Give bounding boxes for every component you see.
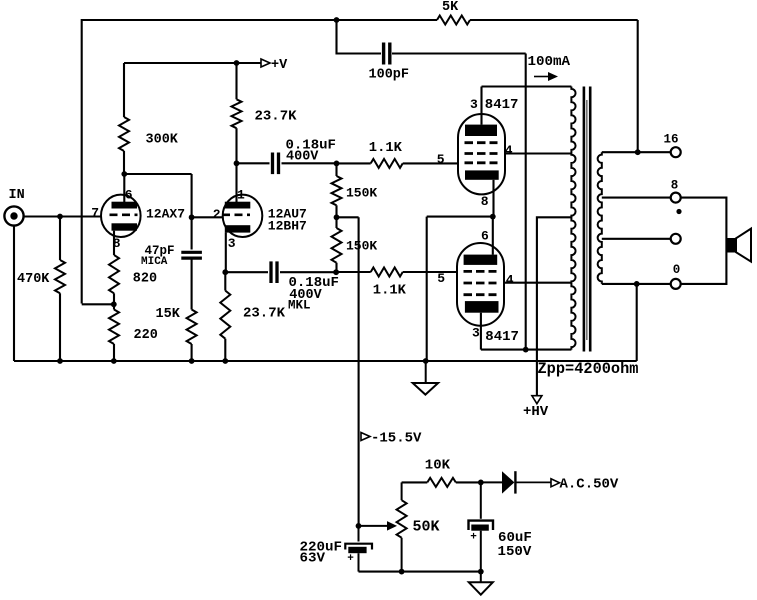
wire: V2 cathode lead (225, 233, 227, 273)
svg-text:+V: +V (271, 58, 288, 73)
svg-text:8417: 8417 (485, 329, 519, 345)
label 60uF (498, 530, 532, 546)
tube V2 grid dashes (222, 214, 250, 217)
node: feedback takeoff at 16 tap (635, 149, 641, 155)
node: 50K on bottom rail (399, 569, 405, 575)
label 220uF (300, 540, 343, 556)
svg-text:6: 6 (481, 228, 489, 243)
tube V1 grid dashes (110, 214, 138, 217)
label 100pF (369, 68, 410, 83)
label Zpp=4200ohm (538, 360, 639, 378)
label 300K (146, 133, 179, 148)
svg-text:A.C.50V: A.C.50V (560, 477, 619, 493)
wire: 16 ohm tap (602, 151, 671, 153)
svg-text:400V: 400V (286, 149, 319, 164)
pin label 4 (V4 screen) (506, 272, 514, 287)
svg-text:16: 16 (664, 132, 679, 146)
terminal 8 ohm (671, 193, 681, 203)
svg-text:15K: 15K (156, 307, 181, 322)
label 4 (dot) (676, 209, 681, 214)
label 8417 bottom (485, 329, 519, 345)
transformer T1 primary winding (571, 87, 575, 350)
svg-text:100mA: 100mA (528, 54, 571, 70)
tube V2 cathode bar (225, 225, 251, 232)
label 23.7K bottom (243, 306, 286, 322)
svg-text:2: 2 (213, 207, 221, 222)
wire: 100pF branch (337, 20, 526, 350)
wire: V4 cathode lead (492, 217, 494, 255)
resistor 150K upper with leads (332, 163, 342, 217)
svg-text:MICA: MICA (141, 256, 168, 268)
label 150V (498, 544, 532, 560)
svg-text:5K: 5K (442, 0, 459, 15)
node A junction on top wire (334, 17, 340, 23)
tube V3 g1 dashes (465, 161, 498, 164)
wire: top coupling line (237, 162, 337, 164)
label 0.18uF bottom (289, 275, 339, 291)
wire: top feedback bus y=20 (82, 20, 638, 304)
wire: ground bus (14, 360, 637, 362)
wire: jack ground drop (13, 226, 15, 361)
svg-text:7: 7 (91, 205, 99, 220)
svg-text:50K: 50K (413, 518, 440, 535)
svg-text:+HV: +HV (523, 404, 549, 420)
label 400V top (286, 149, 319, 164)
label +HV (523, 404, 549, 420)
svg-text:1: 1 (237, 187, 245, 202)
svg-text:100pF: 100pF (369, 68, 410, 83)
pin label 8 (V3 cathode) (481, 194, 489, 209)
label 12AX7 (146, 207, 185, 222)
terminal arrow -15.5V (361, 433, 370, 441)
pin label 7 (V1 grid) (91, 205, 99, 220)
label 63V (300, 551, 326, 567)
pin label 2 (V2 grid) (213, 207, 221, 222)
svg-text:5: 5 (437, 271, 445, 286)
wire: bottom 1.1K line (336, 271, 457, 273)
svg-text:150K: 150K (346, 239, 377, 254)
wire: 8 ohm tap (602, 197, 671, 199)
resistor 300K with leads (119, 63, 129, 174)
wire: 0 ohm tap (602, 283, 671, 285)
wire: 47pF to 15K (191, 258, 193, 361)
svg-text:6: 6 (125, 187, 133, 202)
tube V2 12AU7 envelope (223, 195, 263, 237)
label 50K (413, 518, 440, 535)
wire: top plate line (482, 85, 572, 87)
resistor 23.7K plate load with leads (232, 63, 242, 163)
label MKL (288, 299, 311, 313)
node: bottom coupling out (333, 269, 339, 275)
svg-text:+: + (347, 553, 354, 565)
svg-text:220: 220 (134, 328, 158, 343)
wire: to V2 grid pin 2 (192, 216, 223, 218)
resistor 5K (437, 16, 470, 25)
ground symbol (cathode bus) (413, 361, 438, 395)
pin label 3 (V4 plate) (472, 325, 480, 340)
resistor 220 (109, 310, 119, 345)
label +V (271, 58, 288, 73)
resistor 1.1K bottom (371, 268, 403, 277)
svg-text:820: 820 (133, 272, 157, 287)
node: 470K on bus (57, 358, 63, 364)
svg-text:23.7K: 23.7K (243, 306, 286, 322)
label 0.18uF top (286, 137, 336, 153)
svg-text:8: 8 (481, 194, 489, 209)
node: diode junction (478, 480, 484, 486)
tube V4 g3 dashes (464, 293, 497, 296)
diode D1 (481, 471, 551, 493)
label 8 (671, 179, 679, 193)
node: V2 cathode node (222, 269, 228, 275)
wire: speaker loop (681, 198, 727, 284)
svg-text:4: 4 (506, 272, 514, 287)
node: 12AX7 plate junction (121, 171, 127, 177)
svg-text:3: 3 (472, 325, 480, 340)
label 1.1K top (369, 141, 403, 156)
wire: +V rail (124, 62, 262, 64)
wire: top 1.1K line (337, 162, 459, 164)
wire: V4 screen to UL tap (504, 282, 571, 284)
tube V3 cathode bar (465, 170, 499, 179)
capacitor 100pF (384, 43, 390, 65)
arrow 100mA (534, 72, 558, 81)
wire: input to grid pin 7 (24, 215, 102, 217)
wire: V4 plate lead (480, 313, 482, 350)
node: 150K midpoint (bias feed) (334, 214, 340, 220)
node: input/470K junction (57, 214, 63, 220)
wire: feedback into cathode divider (82, 293, 114, 361)
svg-text:5: 5 (437, 152, 445, 167)
label 220 (134, 328, 158, 343)
node: 23.7K on bus (222, 358, 228, 364)
tube V4 g1 dashes (464, 270, 497, 273)
wire: V2 plate lead (235, 163, 237, 202)
node: 60uF on bottom rail (478, 569, 484, 575)
label 1.1K bottom (373, 284, 407, 299)
label MICA (141, 256, 168, 268)
svg-text:3: 3 (228, 236, 236, 251)
wire: V3 plate lead (480, 87, 482, 125)
svg-text:4: 4 (505, 143, 513, 158)
pin label 3 (V2 cathode) (228, 236, 236, 251)
pin label 6 (V4 cathode) (481, 228, 489, 243)
label 100mA (528, 54, 571, 70)
svg-text:150V: 150V (498, 544, 532, 560)
wire: center tap to +HV (537, 217, 572, 395)
svg-text:1.1K: 1.1K (369, 141, 403, 156)
wire: 0 tap to ground bus (636, 284, 638, 361)
resistor 15K (187, 310, 197, 345)
label -15.5V (371, 431, 422, 447)
resistor 470K with leads (55, 217, 65, 362)
tube V1 plate bar (112, 202, 138, 209)
svg-text:-15.5V: -15.5V (371, 431, 422, 447)
label 12AU7 (268, 207, 307, 222)
svg-text:470K: 470K (17, 272, 50, 287)
tube V3 plate bar (465, 125, 497, 136)
terminal 16 ohm (671, 147, 681, 157)
node: bias rail junction (356, 523, 362, 529)
node: 15K on bus (189, 358, 195, 364)
transformer T1 secondary winding (598, 152, 602, 284)
label 150K upper (346, 185, 377, 200)
node: 100pF line to bottom plate line (523, 347, 529, 353)
transformer T1 core (584, 87, 590, 352)
wire: 4 ohm tap (602, 238, 671, 240)
tube V4 8417 bottom envelope (457, 243, 504, 326)
tube V2 plate bar (225, 202, 251, 209)
wire: V3 cathode lead (492, 180, 494, 217)
pin label 1 (V2 plate) (237, 187, 245, 202)
svg-text:12BH7: 12BH7 (268, 219, 307, 234)
wire: V3 screen to UL tap (505, 152, 571, 154)
svg-text:12AX7: 12AX7 (146, 207, 185, 222)
svg-text:+: + (470, 531, 477, 543)
label 0 (673, 263, 681, 277)
tube V1 cathode bar (112, 223, 138, 230)
label 5K (442, 0, 459, 15)
label 400V bottom (289, 288, 322, 303)
svg-text:8417: 8417 (485, 97, 519, 113)
resistor 10K (427, 478, 456, 487)
connector IN jack (4, 206, 23, 225)
pin label 5 (V3 grid) (437, 152, 445, 167)
pin label 5 (V4 grid) (437, 271, 445, 286)
node: top coupling out (334, 161, 340, 167)
label 470K (17, 272, 50, 287)
node: V2 grid junction (189, 214, 195, 220)
capacitor 60uF 150V electrolytic (469, 482, 494, 571)
capacitor C3 0.18uF 400V bottom (271, 261, 277, 283)
speaker LS1 (726, 229, 751, 262)
terminal 4 ohm (671, 234, 681, 244)
svg-text:IN: IN (9, 188, 25, 203)
svg-text:400V: 400V (289, 288, 322, 303)
tube V3 8417 top envelope (458, 114, 505, 194)
label 10K (425, 457, 451, 473)
tube V3 g3 dashes (465, 141, 498, 144)
tube V4 plate bar (465, 301, 499, 313)
ground symbol (bias supply) (469, 572, 493, 595)
node +V junction 23.7K (234, 60, 240, 66)
svg-text:63V: 63V (300, 551, 326, 567)
pin label 8 (V1 cathode) (113, 236, 121, 251)
resistor 23.7K cathode with lead (220, 272, 230, 361)
resistor 1.1K top (371, 159, 403, 168)
wire: bottom coupling line (225, 271, 336, 273)
svg-text:3: 3 (470, 97, 478, 112)
resistor 150K lower with leads (332, 217, 342, 272)
wire: 10K line (402, 481, 481, 483)
wire: bottom plate line (481, 349, 572, 351)
node: 820/220 feedback junction (111, 301, 117, 307)
pin label 4 (V3 screen) (505, 143, 513, 158)
svg-text:0: 0 (673, 263, 681, 277)
label 47pF (145, 244, 175, 258)
terminal 0 ohm (671, 279, 681, 289)
pin label 3 (V3 plate) (470, 97, 478, 112)
svg-text:Zpp=4200ohm: Zpp=4200ohm (538, 360, 639, 378)
label 15K (156, 307, 181, 322)
terminal arrow A.C.50V (551, 479, 560, 487)
node: 0 tap ground takeoff (634, 281, 640, 287)
resistor 820 (109, 255, 119, 293)
tube V4 g2 dashes (464, 282, 497, 285)
tube V3 g2 dashes (465, 152, 498, 155)
svg-text:150K: 150K (346, 185, 377, 200)
capacitor C2 0.18uF 400V top (273, 153, 279, 175)
svg-text:8: 8 (671, 179, 679, 193)
wire: bias feed to -15.5V rail (337, 217, 359, 526)
potentiometer 50K (397, 482, 407, 571)
wire: 12AX7 plate lead (123, 174, 125, 202)
label 12BH7 (268, 219, 307, 234)
node: cathode junction (490, 214, 496, 220)
svg-text:1.1K: 1.1K (373, 284, 407, 299)
capacitor 220uF 63V electrolytic (345, 526, 372, 572)
tube V4 cathode bar (464, 255, 498, 265)
wiper arrow into 50K (359, 521, 398, 531)
terminal arrow +V (261, 59, 270, 67)
wire: plate node to grid-2 column (124, 174, 191, 250)
label 150K lower (346, 239, 377, 254)
terminal arrow +HV (532, 396, 542, 404)
svg-text:300K: 300K (146, 133, 179, 148)
label 16 (664, 132, 679, 146)
wire: bias supply bottom rail (359, 571, 481, 573)
capacitor 47pF MICA (181, 252, 202, 258)
tube V1 12AX7 envelope (101, 195, 141, 237)
svg-text:10K: 10K (425, 457, 451, 473)
wire: cathodes to ground (427, 217, 493, 361)
node: 220 on bus (111, 358, 117, 364)
node: V2 plate node (234, 160, 240, 166)
label A.C.50V (560, 477, 619, 493)
label 8417 top (485, 97, 519, 113)
label IN (9, 188, 25, 203)
pin label 6 (V1 plate) (125, 187, 133, 202)
node: cathode ground on bus (423, 358, 429, 364)
label 820 (133, 272, 157, 287)
svg-text:23.7K: 23.7K (255, 109, 298, 125)
wire: V1 cathode lead (113, 231, 115, 255)
label 23.7K top (255, 109, 298, 125)
